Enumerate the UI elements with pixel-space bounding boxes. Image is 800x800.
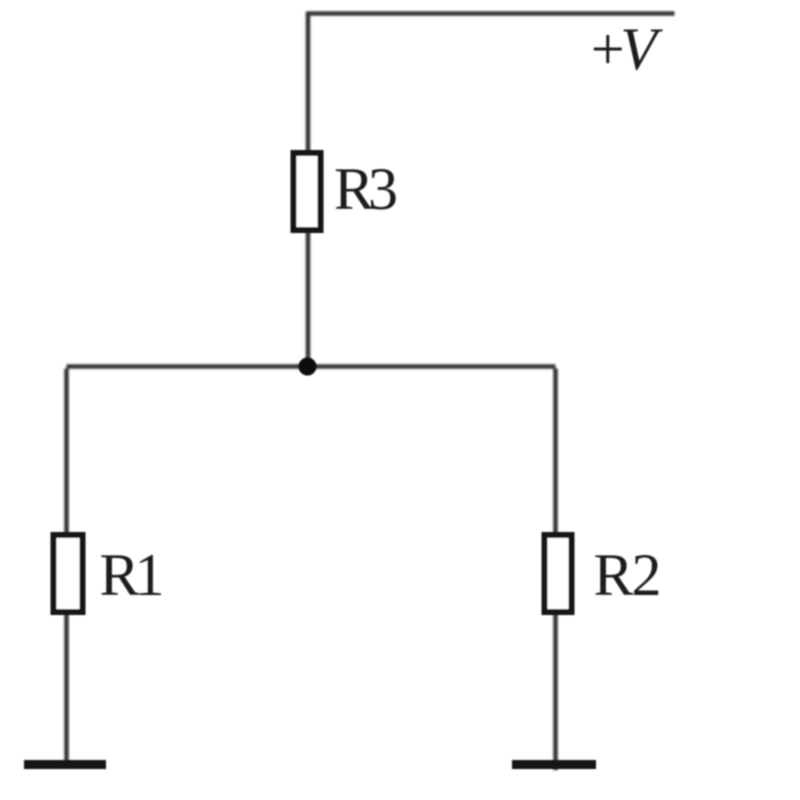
svg-text:R1: R1 xyxy=(100,542,165,608)
svg-text:R3: R3 xyxy=(334,156,398,222)
svg-text:R2: R2 xyxy=(594,542,662,608)
svg-text:+V: +V xyxy=(587,16,663,82)
